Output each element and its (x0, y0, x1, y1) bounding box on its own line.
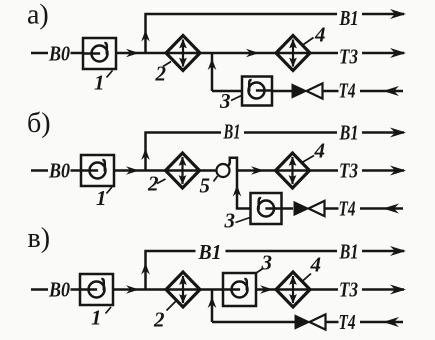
svg-text:Т4: Т4 (339, 79, 356, 103)
svg-text:4: 4 (314, 23, 326, 47)
svg-text:4: 4 (314, 139, 326, 163)
svg-text:1: 1 (94, 71, 105, 95)
svg-text:В1: В1 (223, 120, 241, 144)
svg-text:В0: В0 (48, 159, 70, 183)
svg-text:5: 5 (200, 174, 211, 198)
svg-text:1: 1 (91, 306, 102, 330)
svg-text:б): б) (27, 108, 51, 139)
svg-text:в): в) (28, 223, 51, 254)
svg-text:2: 2 (155, 62, 167, 86)
svg-text:В0: В0 (48, 42, 70, 66)
svg-text:Т4: Т4 (339, 197, 356, 221)
svg-text:В1: В1 (339, 240, 359, 264)
svg-text:4: 4 (310, 253, 322, 277)
svg-text:В1: В1 (339, 6, 359, 30)
svg-text:3: 3 (224, 209, 236, 233)
svg-text:2: 2 (147, 172, 159, 196)
svg-text:3: 3 (261, 251, 273, 275)
svg-text:В1: В1 (198, 240, 222, 264)
svg-text:3: 3 (219, 89, 231, 113)
svg-text:а): а) (27, 0, 49, 31)
svg-text:Т3: Т3 (339, 45, 358, 69)
svg-text:В0: В0 (48, 278, 70, 302)
svg-text:Т3: Т3 (339, 278, 358, 302)
svg-text:1: 1 (96, 186, 107, 210)
svg-text:Т3: Т3 (339, 159, 358, 183)
svg-text:В1: В1 (339, 121, 359, 145)
svg-text:2: 2 (153, 308, 165, 332)
svg-text:Т4: Т4 (339, 310, 356, 334)
